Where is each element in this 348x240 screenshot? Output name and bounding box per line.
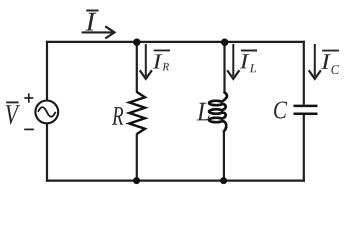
junction node top R	[133, 39, 140, 46]
minus terminal	[24, 128, 34, 130]
plus terminal	[24, 93, 33, 102]
label IL with overline	[240, 51, 257, 73]
label IC with overline	[321, 51, 339, 74]
wire L branch lower	[223, 131, 225, 181]
inductor L (coil)	[209, 93, 227, 132]
resistor R	[129, 92, 145, 134]
label V (phasor V with overline)	[6, 102, 20, 124]
wire R branch upper	[136, 42, 138, 93]
wire top	[46, 41, 305, 43]
label L	[197, 103, 210, 121]
current arrow I (top)	[82, 26, 115, 38]
junction node top L	[221, 39, 228, 46]
current arrow IR	[140, 44, 152, 79]
source V1 (AC sine source)	[35, 101, 58, 124]
wire C branch lower	[303, 115, 305, 182]
junction node bottom L	[220, 177, 227, 184]
label C	[274, 102, 287, 119]
wire R branch lower	[136, 134, 138, 181]
wire left lower	[46, 123, 48, 181]
label I with overline (total current phasor)	[85, 11, 98, 31]
label IR with overline	[153, 50, 170, 70]
wire bottom	[46, 180, 305, 182]
wire L branch upper	[223, 42, 225, 94]
current arrow IL	[227, 44, 239, 79]
current arrow IC	[309, 44, 321, 79]
wire C branch upper	[303, 41, 305, 105]
capacitor C plates	[294, 106, 318, 114]
junction node bottom R	[133, 177, 140, 184]
label R	[112, 107, 123, 125]
wire left upper	[46, 41, 48, 101]
